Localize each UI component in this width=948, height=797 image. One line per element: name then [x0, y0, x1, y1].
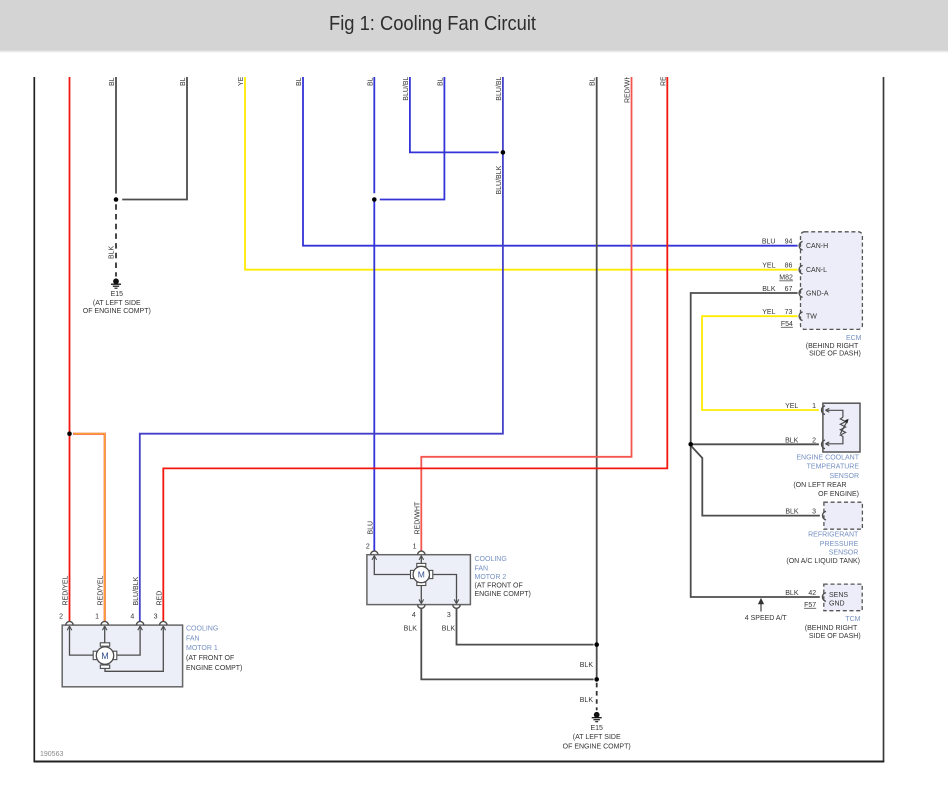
svg-text:67: 67	[785, 286, 793, 293]
svg-text:RED/WHT: RED/WHT	[414, 501, 421, 534]
svg-text:2: 2	[366, 544, 370, 551]
TCM box	[824, 584, 862, 611]
svg-text:RED/YEL: RED/YEL	[63, 575, 70, 605]
thermistor zigzag	[840, 417, 845, 437]
svg-text:4: 4	[412, 612, 416, 619]
svg-text:BL: BL	[590, 77, 597, 86]
wire fan2 pin1 to motor top	[420, 556, 422, 564]
fan motor 1 caption	[186, 625, 242, 672]
fan motor 1 pin 2 arc	[66, 621, 73, 625]
svg-text:42: 42	[808, 590, 816, 597]
svg-text:PRESSURE: PRESSURE	[820, 541, 859, 548]
svg-text:RED/WH: RED/WH	[625, 75, 632, 103]
svg-text:OF ENGINE COMPT): OF ENGINE COMPT)	[563, 744, 631, 751]
node BLK fan2 pin3	[594, 642, 599, 647]
coolant sensor internal wiring	[827, 410, 847, 444]
wire BLU to fan motor 2 pin 2	[373, 77, 375, 193]
node RED/YEL split	[67, 431, 72, 436]
svg-text:SENSOR: SENSOR	[829, 549, 859, 556]
wire YEL ECM TW to coolant sensor pin 1	[702, 316, 819, 410]
svg-text:YEL: YEL	[785, 403, 798, 410]
wire BLK vertical 2 joining junction	[122, 77, 187, 200]
svg-text:190563: 190563	[40, 751, 63, 758]
svg-text:(AT FRONT OF: (AT FRONT OF	[475, 583, 523, 590]
wire fan2 pin2 to motor left brush	[374, 556, 411, 575]
svg-text:REFRIGERANT: REFRIGERANT	[808, 532, 859, 539]
svg-text:ENGINE COMPT): ENGINE COMPT)	[186, 665, 242, 672]
4 SPEED A/T arrow	[760, 600, 762, 612]
svg-text:1: 1	[95, 614, 99, 621]
wire RED to fan motor 1 pin 3	[163, 77, 667, 622]
svg-text:TW: TW	[806, 314, 817, 321]
wire BLK jog to refrigerant pressure sensor pin 3	[691, 446, 820, 516]
svg-text:M82: M82	[779, 275, 793, 282]
fan motor 1 pin 1 arc	[101, 621, 108, 625]
svg-text:BLU/BLK: BLU/BLK	[133, 576, 140, 605]
svg-text:SIDE OF DASH): SIDE OF DASH)	[809, 351, 861, 358]
svg-text:TEMPERATURE: TEMPERATURE	[807, 464, 860, 471]
svg-text:94: 94	[785, 239, 793, 246]
svg-text:4: 4	[130, 614, 134, 621]
svg-text:BLK: BLK	[580, 662, 594, 669]
svg-text:F57: F57	[804, 602, 816, 609]
svg-text:RE: RE	[660, 76, 667, 86]
svg-text:4 SPEED A/T: 4 SPEED A/T	[745, 615, 788, 622]
E15 lower caption	[563, 725, 631, 751]
fan motor 2 pin 1 arc	[418, 551, 425, 555]
svg-text:(ON A/C LIQUID TANK): (ON A/C LIQUID TANK)	[786, 558, 860, 565]
svg-text:MOTOR 1: MOTOR 1	[186, 645, 218, 652]
cooling fan motor 1 box	[62, 625, 182, 687]
svg-text:3: 3	[154, 614, 158, 621]
svg-text:COOLING: COOLING	[186, 625, 218, 632]
svg-text:YEL: YEL	[762, 309, 775, 316]
fan motor 2 pin 3 arc	[453, 605, 460, 609]
wire YEL to ECM CAN-L	[245, 77, 798, 270]
wire BLU/BLK long run to fan motor 1 pin 4	[140, 77, 503, 622]
wire RED vertical (to fan motor 1 pin 2)	[69, 77, 71, 622]
svg-text:(BEHIND RIGHT: (BEHIND RIGHT	[806, 343, 859, 350]
node BLK sensor ground	[688, 442, 693, 447]
wire fan2 motor right brush to pin3	[431, 575, 456, 604]
svg-text:F54: F54	[781, 321, 793, 328]
svg-text:BL: BL	[296, 77, 303, 86]
TCM pin 42 arc	[822, 593, 825, 602]
refrigerant sensor pin 3 arc	[823, 511, 826, 520]
wire fan1 motor bottom to pin3	[105, 626, 163, 671]
wire fan1 pin2 to motor left brush	[70, 626, 95, 655]
thermistor arrow	[840, 422, 846, 434]
wire fan1 pin4 to motor right brush	[115, 626, 140, 655]
refrigerant sensor caption	[786, 532, 860, 565]
wire BLU to ECM CAN-H	[303, 77, 798, 246]
svg-text:2: 2	[812, 437, 816, 444]
svg-text:3: 3	[812, 509, 816, 516]
cooling fan motor 2 box	[367, 555, 471, 605]
svg-text:YE: YE	[238, 76, 245, 86]
svg-text:E15: E15	[590, 725, 603, 732]
svg-text:FAN: FAN	[475, 565, 489, 572]
svg-text:(BEHIND RIGHT: (BEHIND RIGHT	[805, 625, 858, 632]
wire fan2 motor bottom to pin4	[420, 586, 422, 604]
svg-text:RED: RED	[156, 591, 163, 606]
coolant sensor pin 2 arc	[822, 440, 825, 449]
svg-text:OF ENGINE COMPT): OF ENGINE COMPT)	[83, 308, 151, 315]
coolant sensor pin 1 arc	[822, 406, 825, 415]
ground E15 lower	[592, 712, 602, 721]
wire RED/YEL branch (dot to fan motor 1 pin 1)	[73, 434, 105, 622]
svg-text:BL: BL	[367, 77, 374, 86]
thermistor arrow head	[844, 419, 848, 424]
fan motor 2 pin 4 arc	[418, 605, 425, 609]
frame bottom border	[34, 761, 885, 763]
svg-text:M: M	[418, 570, 425, 580]
motor M2 symbol	[411, 563, 433, 585]
fan motor 1 internal arrows	[67, 626, 165, 630]
svg-text:CAN-H: CAN-H	[806, 243, 828, 250]
svg-text:BL: BL	[437, 77, 444, 86]
wire BLK fan motor 2 pin 4 to junction	[421, 608, 593, 679]
svg-text:ECM: ECM	[846, 335, 862, 342]
fan motor 2 internal arrows	[372, 556, 459, 604]
svg-text:BLK: BLK	[404, 626, 418, 633]
svg-text:BLK: BLK	[785, 590, 799, 597]
motor M1 symbol	[93, 643, 117, 669]
fan motor 1 pin 4 arc	[136, 621, 143, 625]
wire BLU joining junction at 199.5	[380, 77, 445, 200]
coolant pin1 internal arrow	[825, 408, 829, 412]
ECM pin 86 CAN-L	[799, 265, 802, 274]
svg-text:BLK: BLK	[785, 437, 799, 444]
svg-text:BLU/BL: BLU/BL	[496, 76, 503, 100]
svg-text:ENGINE COOLANT: ENGINE COOLANT	[796, 455, 859, 462]
svg-text:FAN: FAN	[186, 635, 200, 642]
svg-text:BLU/BLK: BLU/BLK	[496, 165, 503, 194]
svg-text:1: 1	[812, 403, 816, 410]
svg-text:BLK: BLK	[580, 697, 594, 704]
svg-text:COOLING: COOLING	[475, 556, 507, 563]
svg-text:3: 3	[447, 612, 451, 619]
mid-run wire labels (rotated)	[63, 165, 503, 605]
svg-text:E15: E15	[111, 291, 124, 298]
wire BLU/BLK upper joining junction	[410, 77, 499, 152]
node BLU/BLK junction	[501, 150, 506, 155]
wire BLK fan motor 2 pin 3 to junction	[457, 608, 594, 644]
fan motor 2 pin 2 arc	[371, 551, 378, 555]
svg-text:BLU: BLU	[367, 521, 374, 535]
ECM pin 67 GND-A	[799, 289, 802, 298]
svg-text:1: 1	[413, 544, 417, 551]
svg-text:(AT LEFT SIDE: (AT LEFT SIDE	[93, 300, 141, 307]
ECM caption	[806, 335, 862, 358]
svg-text:73: 73	[785, 309, 793, 316]
svg-text:RED/YEL: RED/YEL	[98, 575, 105, 605]
svg-text:OF ENGINE): OF ENGINE)	[818, 491, 859, 498]
svg-text:(AT LEFT SIDE: (AT LEFT SIDE	[573, 734, 621, 741]
wire BLK junction to coolant sensor pin 2	[691, 443, 819, 445]
wire BLK dashed to ground E15	[115, 204, 117, 276]
svg-text:86: 86	[785, 263, 793, 270]
wire color labels at top edge (clipped)	[109, 75, 667, 103]
ground E15 upper	[111, 279, 121, 288]
svg-text:TCM: TCM	[845, 616, 860, 623]
svg-text:SIDE OF DASH): SIDE OF DASH)	[809, 633, 861, 640]
svg-text:ENGINE COMPT): ENGINE COMPT)	[475, 591, 531, 598]
fan motor 2 caption	[475, 556, 531, 598]
svg-text:M: M	[101, 651, 109, 661]
ECM pin 73 TW	[799, 312, 802, 321]
svg-text:BL: BL	[180, 77, 187, 86]
wire BLK vertical into junction E15 top	[115, 77, 117, 194]
ECM pin 94 CAN-H	[799, 241, 802, 250]
svg-text:YEL: YEL	[762, 263, 775, 270]
svg-text:MOTOR 2: MOTOR 2	[475, 574, 507, 581]
frame right border	[883, 77, 885, 762]
TCM internal label SENS GND	[829, 592, 848, 608]
svg-text:CAN-L: CAN-L	[806, 267, 827, 274]
TCM caption	[805, 616, 861, 640]
svg-text:BL: BL	[109, 77, 116, 86]
wire fan1 pin1 to motor top	[104, 626, 106, 643]
svg-text:BLK: BLK	[442, 626, 456, 633]
wire RED/WHT to fan motor 2 pin 1	[421, 77, 631, 551]
wire BLK main ground run	[596, 77, 598, 679]
svg-text:SENS: SENS	[829, 592, 848, 599]
svg-text:Fig 1: Cooling Fan Circuit: Fig 1: Cooling Fan Circuit	[329, 13, 536, 35]
wire BLK junction down to TCM SENS GND	[691, 444, 820, 597]
svg-text:SENSOR: SENSOR	[829, 473, 859, 480]
svg-text:BLK: BLK	[109, 245, 116, 259]
svg-text:2: 2	[59, 614, 63, 621]
engine coolant temperature sensor box	[823, 403, 860, 452]
coolant sensor caption	[793, 455, 859, 498]
svg-text:GND-A: GND-A	[806, 291, 829, 298]
svg-text:(ON LEFT REAR: (ON LEFT REAR	[793, 482, 846, 489]
wire BLK from ECM GND-A to junction	[691, 293, 798, 444]
refrigerant pressure sensor box	[824, 502, 863, 529]
svg-text:GND: GND	[829, 601, 845, 608]
wire BLK dashed to ground E15 bottom	[596, 683, 598, 710]
coolant pin2 internal arrow	[825, 442, 829, 446]
svg-text:BLK: BLK	[785, 509, 799, 516]
ECM connector box U1	[801, 232, 863, 330]
svg-text:BLU/BL: BLU/BL	[403, 76, 410, 100]
E15 upper caption	[83, 291, 151, 315]
fan motor 1 pin 3 arc	[160, 621, 167, 625]
svg-text:(AT FRONT OF: (AT FRONT OF	[186, 655, 234, 662]
node BLK fan2 pin4	[594, 677, 599, 682]
node BLK E15 top	[114, 197, 119, 202]
node BLU junction	[372, 197, 377, 202]
svg-text:BLK: BLK	[762, 286, 776, 293]
frame left border	[33, 77, 35, 762]
svg-text:BLU: BLU	[762, 239, 776, 246]
